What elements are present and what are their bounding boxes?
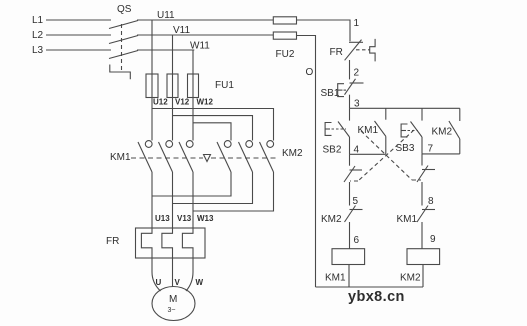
coil KM1 [332, 249, 365, 265]
wire L1 [46, 19, 111, 21]
svg-text:KM2: KM2 [432, 127, 453, 138]
linkage triangle [204, 155, 211, 162]
button SB2 NO contact [349, 108, 351, 120]
svg-text:1: 1 [354, 18, 360, 29]
svg-text:SB2: SB2 [323, 145, 342, 156]
svg-text:U12: U12 [153, 98, 168, 107]
contactor KM1 main contact 1 [145, 141, 152, 148]
wire U12 down to KM1 contact [151, 98, 153, 141]
wire KM1-1 down to FR [151, 172, 153, 228]
wire KM1-2 down to FR [172, 172, 174, 228]
svg-text:M: M [169, 294, 177, 305]
main contacts linkage dashed [131, 157, 203, 159]
wire V12 tap to KM2 middle [173, 116, 253, 141]
svg-text:L3: L3 [32, 45, 44, 56]
contactor KM2 main contact 3 [267, 141, 274, 148]
interlock dashed SB2-to-right [361, 131, 412, 180]
thermal relay FR trip element [370, 39, 375, 62]
svg-text:5: 5 [353, 196, 359, 207]
fuse FU1-2 [167, 74, 178, 98]
svg-text:2: 2 [354, 68, 360, 79]
svg-text:KM1: KM1 [110, 152, 131, 163]
wire node7 bus [422, 153, 460, 155]
contactor KM1 main contact 3 [186, 141, 193, 148]
svg-text:KM1: KM1 [358, 125, 379, 136]
contactor KM2 NC interlock contact [350, 209, 363, 211]
wire V12 down to KM1 contact [172, 98, 174, 141]
button SB3 actuator [401, 124, 407, 137]
svg-text:L1: L1 [32, 15, 44, 26]
wire U11 horizontal [137, 19, 273, 21]
thermal relay FR NC contact [349, 41, 363, 43]
wire U11 drop to fuse [151, 20, 153, 98]
svg-text:SB1: SB1 [321, 88, 340, 99]
thermal relay FR element 3 [182, 228, 193, 258]
svg-text:U: U [156, 278, 162, 287]
svg-text:KM1: KM1 [397, 214, 418, 225]
wire KM1 coil to bottom bus [348, 265, 350, 288]
wire KM2-1 crossover to U13 [152, 172, 231, 196]
wire motor lead U [152, 258, 161, 291]
svg-text:W: W [196, 278, 204, 287]
svg-text:8: 8 [428, 196, 434, 207]
switch QS handle bracket [110, 65, 131, 80]
wire from FU2-1 to node 1 [297, 20, 351, 41]
wire bottom bus [316, 286, 424, 288]
svg-text:KM1: KM1 [325, 273, 346, 284]
svg-text:U11: U11 [157, 10, 175, 21]
wire node4 bus [350, 153, 386, 155]
svg-text:V12: V12 [175, 98, 190, 107]
interlock dashed SB3-to-left [358, 130, 414, 181]
switch QS pole 3 blade [109, 51, 138, 59]
svg-text:7: 7 [428, 144, 434, 155]
thermal relay FR element 1 [141, 228, 152, 258]
wire W12 tap to KM2 left [193, 123, 231, 141]
wire U12 tap to KM2 right [152, 109, 274, 141]
contactor KM1 main contact 2 [166, 141, 173, 148]
wire KM1-3 down to FR [192, 172, 194, 228]
svg-text:3~: 3~ [168, 307, 176, 314]
wire node1 to node2 [349, 60, 351, 79]
svg-text:V: V [175, 278, 181, 287]
svg-text:KM2: KM2 [321, 214, 342, 225]
thermal relay FR box [136, 228, 206, 258]
wire from FU2-2 to O line [297, 36, 316, 288]
wire node3 bus [350, 107, 460, 109]
button SB1 actuator [338, 84, 344, 97]
svg-text:O: O [306, 67, 314, 78]
fuse FU2-2 [273, 32, 296, 39]
wire L2 [46, 34, 111, 36]
contactor KM1 aux NO contact [385, 108, 387, 119]
fuse FU2-1 [273, 17, 296, 24]
switch QS pole 1 blade [109, 21, 138, 29]
svg-text:FR: FR [330, 47, 343, 58]
fuse FU1-1 [146, 74, 158, 98]
button SB2 actuator [325, 123, 331, 136]
switch QS linkage dashed [121, 24, 123, 72]
svg-text:QS: QS [117, 4, 132, 15]
thermal relay FR element 2 [162, 228, 173, 258]
wire node2 to node3 [349, 95, 351, 109]
wire W11 drop to fuse [192, 50, 194, 98]
coil KM2 [407, 249, 440, 265]
wire L3 [46, 49, 111, 51]
button SB1 NC contact [350, 82, 364, 84]
contactor KM2 aux NO contact [459, 108, 461, 121]
wire W12 down to KM1 contact [192, 98, 194, 141]
svg-text:FU2: FU2 [276, 49, 295, 60]
svg-text:W12: W12 [197, 98, 214, 107]
fuse FU1-3 [188, 74, 199, 98]
svg-text:W13: W13 [197, 214, 214, 223]
svg-text:FU1: FU1 [215, 80, 234, 91]
button SB3 NO contact [421, 108, 423, 120]
switch QS pole 2 blade [109, 36, 138, 44]
FR linkage dashed [356, 49, 370, 51]
svg-text:U13: U13 [155, 214, 170, 223]
svg-text:ybx8.cn: ybx8.cn [348, 289, 405, 305]
wire KM2-2 crossover to V13 [173, 172, 253, 204]
svg-text:V11: V11 [173, 25, 190, 36]
contactor KM2 main contact 2 [246, 141, 253, 148]
svg-text:V13: V13 [177, 214, 192, 223]
wire KM2 coil to bottom bus [422, 265, 424, 288]
svg-text:6: 6 [354, 235, 360, 246]
motor M [152, 287, 195, 321]
svg-text:KM2: KM2 [400, 273, 421, 284]
svg-text:9: 9 [430, 234, 436, 245]
wire KM2-3 crossover to W13 [193, 172, 274, 211]
svg-text:KM2: KM2 [282, 148, 303, 159]
button SB3 NC contact (left branch) [349, 154, 351, 165]
contactor KM1 NC interlock contact [422, 209, 435, 211]
svg-text:L2: L2 [32, 30, 44, 41]
wire V11 horizontal [137, 34, 273, 36]
wire W11 horizontal [137, 49, 194, 51]
button SB2 NC contact (right branch) [421, 154, 423, 166]
wire V11 drop to fuse [172, 35, 174, 98]
wire motor lead V [172, 258, 174, 287]
wire motor lead W [186, 258, 193, 291]
contactor KM2 main contact 1 [224, 141, 231, 148]
svg-text:FR: FR [106, 236, 119, 247]
